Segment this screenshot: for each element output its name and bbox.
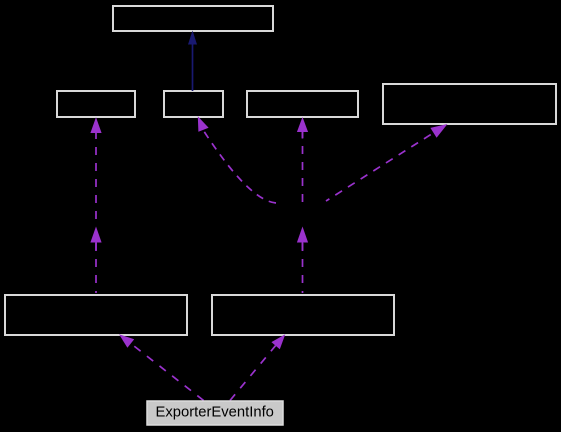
svg-text:ExporterEventInfo: ExporterEventInfo bbox=[155, 404, 273, 420]
